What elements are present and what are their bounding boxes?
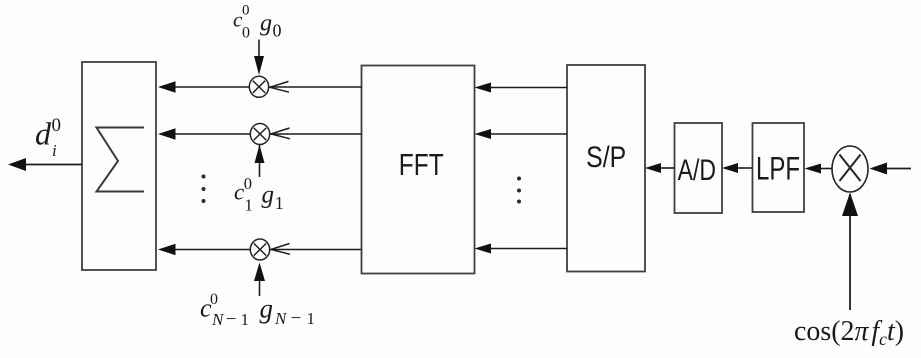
svg-text:−: − bbox=[291, 308, 302, 329]
arrowhead into FFT row3 bbox=[475, 244, 492, 254]
vertical dots left column bbox=[202, 175, 206, 204]
svg-text:1: 1 bbox=[241, 310, 250, 329]
svg-text:g: g bbox=[262, 182, 275, 209]
arrowhead into SUM row1 bbox=[158, 81, 176, 92]
multiplier M3 bbox=[250, 239, 269, 260]
wire M4 to LPF bbox=[819, 168, 832, 170]
label di0 output bbox=[35, 115, 61, 160]
svg-text:cos(2πfct): cos(2πfct) bbox=[794, 316, 904, 349]
svg-text:LPF: LPF bbox=[756, 150, 800, 186]
wire row1 FFT to M1 bbox=[269, 86, 362, 88]
svg-text:1: 1 bbox=[275, 193, 284, 213]
wire row3 FFT to M3 bbox=[270, 249, 362, 251]
arrowhead into FFT row1 bbox=[475, 83, 492, 93]
svg-text:FFT: FFT bbox=[399, 147, 444, 181]
svg-text:1: 1 bbox=[307, 309, 316, 328]
vertical dots right column bbox=[517, 177, 521, 204]
wire row2 FFT to M2 bbox=[270, 133, 362, 135]
wire row3 S/P to FFT bbox=[489, 248, 567, 250]
svg-text:0: 0 bbox=[52, 115, 62, 136]
svg-text:1: 1 bbox=[245, 196, 253, 215]
FFT block bbox=[362, 66, 475, 274]
coefficient arrow into M1 bbox=[254, 40, 264, 76]
arrowhead into A/D bbox=[722, 163, 738, 173]
svg-text:0: 0 bbox=[210, 291, 218, 308]
open arrowhead at M3 bbox=[271, 244, 290, 255]
A/D block bbox=[675, 123, 723, 213]
wire row1 S/P to FFT bbox=[489, 87, 567, 89]
open arrowhead at M2 bbox=[271, 128, 290, 139]
carrier arrow into M4 bbox=[842, 193, 858, 311]
wire M1 to SUM bbox=[173, 86, 250, 88]
output arrowhead bbox=[8, 158, 26, 171]
svg-text:c: c bbox=[234, 180, 244, 205]
sigma symbol bbox=[97, 128, 145, 192]
arrowhead into SUM row2 bbox=[158, 128, 176, 139]
coefficient arrow into M3 bbox=[254, 263, 265, 297]
multiplier M4 (RF mixer) bbox=[832, 146, 868, 192]
arrowhead into M4 bbox=[870, 163, 888, 175]
svg-text:N: N bbox=[274, 309, 288, 328]
svg-text:0: 0 bbox=[273, 21, 282, 41]
arrowhead into LPF bbox=[805, 164, 822, 174]
summation block SUM bbox=[82, 62, 156, 270]
svg-text:g: g bbox=[260, 294, 274, 324]
svg-text:S/P: S/P bbox=[586, 140, 626, 174]
output wire from SUM bbox=[24, 164, 82, 166]
wire row2 S/P to FFT bbox=[489, 133, 567, 135]
multiplier M2 bbox=[250, 124, 269, 145]
S/P block bbox=[567, 65, 645, 272]
label c10 g1 bbox=[234, 174, 284, 215]
wire A/D to S/P bbox=[659, 167, 675, 169]
multiplier M1 bbox=[249, 76, 268, 97]
wire M3 to SUM bbox=[173, 249, 251, 251]
svg-text:A/D: A/D bbox=[678, 153, 716, 187]
svg-text:0: 0 bbox=[242, 25, 250, 42]
arrowhead into SUM row3 bbox=[158, 244, 176, 255]
arrowhead into FFT row2 bbox=[475, 129, 492, 139]
LPF block bbox=[753, 123, 805, 212]
svg-text:d: d bbox=[35, 116, 52, 152]
svg-text:0: 0 bbox=[244, 174, 252, 193]
svg-text:N: N bbox=[211, 310, 225, 329]
svg-text:0: 0 bbox=[242, 3, 250, 19]
wire M2 to SUM bbox=[173, 133, 251, 135]
open arrowhead at M1 bbox=[270, 81, 289, 92]
label c00 g0 bbox=[233, 3, 282, 42]
label cN-1 gN-1 bbox=[200, 291, 315, 330]
arrowhead into S/P bbox=[645, 163, 661, 173]
svg-text:−: − bbox=[226, 309, 237, 330]
wire LPF to A/D bbox=[737, 167, 753, 169]
svg-text:i: i bbox=[52, 141, 57, 160]
svg-text:g: g bbox=[260, 11, 272, 37]
coefficient arrow into M2 bbox=[255, 145, 265, 177]
label cos(2 pi fc t) bbox=[794, 316, 904, 349]
input wire to M4 bbox=[886, 168, 911, 170]
